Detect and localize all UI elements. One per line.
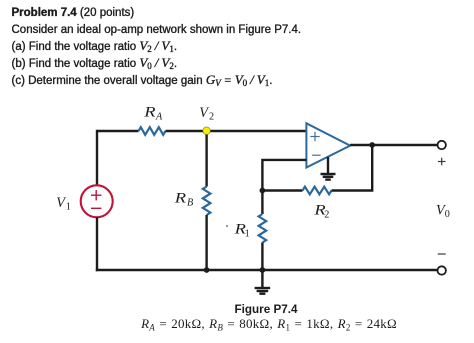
node output junction (369, 142, 375, 148)
wire op-amp output (350, 144, 438, 146)
svg-text:0: 0 (445, 209, 450, 220)
wire top from source to RA (97, 130, 139, 132)
ground (261, 270, 263, 287)
source V1 minus mark (91, 207, 101, 209)
wire inverting input (262, 160, 306, 191)
stray dot (226, 225, 228, 227)
svg-text:R: R (143, 104, 156, 120)
label + at output (438, 161, 446, 163)
svg-text:1: 1 (245, 229, 250, 240)
svg-text:R: R (173, 190, 186, 206)
svg-text:Figure P7.4: Figure P7.4 (234, 303, 298, 316)
svg-text:1: 1 (66, 202, 71, 213)
op-amp noninverting + mark (310, 136, 319, 138)
terminal - output (438, 266, 446, 274)
op-amp U1 (306, 123, 350, 167)
wire R2 to feedback vertical (332, 145, 373, 191)
terminal + output (438, 141, 446, 149)
source V1 (81, 185, 113, 217)
source V1 plus mark (91, 194, 101, 196)
op-amp inverting - mark (312, 154, 321, 156)
wire node to R2 (262, 189, 302, 191)
wire R1 to bottom rail (261, 243, 263, 271)
junction R1 bottom (260, 267, 266, 273)
resistor RA (139, 127, 166, 135)
problem statement text (12, 5, 302, 91)
wire bottom rail (96, 269, 438, 271)
wire RB to bottom rail (205, 215, 207, 270)
wire RA to op-amp + input (166, 130, 307, 132)
op-amp reference ground (327, 157, 329, 173)
resistor R2 (303, 187, 332, 195)
svg-text:2: 2 (209, 112, 214, 123)
node V2 (yellow) (203, 127, 210, 134)
svg-text:B: B (187, 197, 193, 208)
wire left vertical below source (96, 217, 98, 271)
wire left vertical above source (96, 130, 98, 186)
node feedback-left junction (260, 188, 266, 194)
wire V2 vertical upper (205, 131, 207, 187)
label - at output (438, 253, 446, 255)
svg-text:2: 2 (324, 209, 329, 220)
svg-text:A: A (155, 112, 163, 123)
junction RB bottom (204, 267, 210, 273)
wire R1 branch vertical (261, 191, 263, 215)
resistor R1 (259, 214, 267, 243)
resistor RB (203, 187, 211, 216)
svg-text:RA = 20kΩ, RB = 80kΩ, R1 = 1: RA = 20kΩ, RB = 80kΩ, R1 = 1kΩ, R2 = 24k… (140, 316, 397, 333)
